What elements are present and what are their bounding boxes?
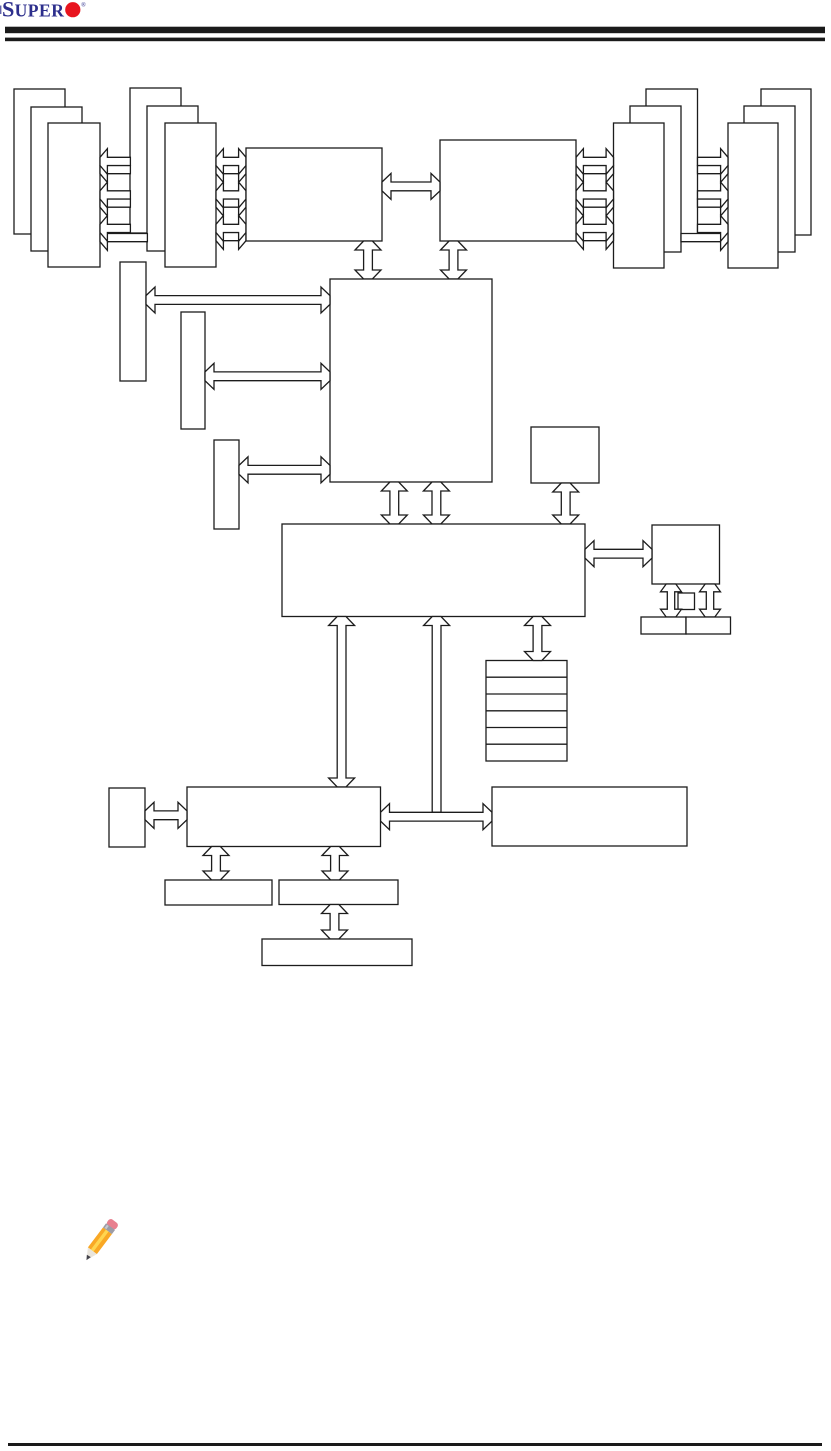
arrow small box to ICH [553, 483, 579, 524]
page edge letter sliver [0, 6, 1, 15]
arrow slot3 to IOH [239, 457, 330, 483]
header logo SUPER(R) [2, 0, 65, 22]
arrow F to G [322, 905, 348, 940]
line ICH down to IDE bus (head at top only) [424, 617, 450, 813]
arrows PCI bridge down [203, 847, 229, 881]
svg-text:®: ® [81, 2, 86, 9]
left DIMM stack group A (back to front) [14, 89, 65, 234]
arrow CPU2 to IOH [441, 241, 467, 279]
small box above ICH (media/VGA) [531, 427, 599, 483]
svg-text:UPER: UPER [15, 1, 65, 21]
arrow slot2 to IOH [205, 363, 330, 389]
memory bus arrows: CPU2 to stack E (double heads) [576, 157, 614, 183]
bottom box G [262, 939, 412, 966]
bottom box F [279, 880, 398, 905]
arrow super IO to PCI bridge [145, 802, 187, 828]
arrows BMC to LAN boxes [661, 584, 682, 617]
memory bus arrows: stack E to stack F (right heads only) [698, 157, 729, 183]
QPI arrow CPU1-CPU2 [382, 173, 440, 199]
pencil note icon [81, 1218, 119, 1263]
CPU1 box [246, 148, 382, 241]
header rule thick [5, 27, 825, 34]
memory bus arrows: stack B to CPU1 (double heads) [216, 157, 246, 183]
PCI-E slot box 3 [214, 440, 239, 529]
left DIMM stack group B (back to front) [130, 88, 181, 233]
arrow ICH to BMC [585, 541, 652, 567]
PCI-E slot box 1 [120, 262, 146, 381]
BMC box [652, 525, 720, 584]
arrow ICH to USB stack [525, 617, 551, 661]
ICH south bridge box [282, 524, 585, 617]
arrow CPU1 to IOH [355, 241, 381, 279]
right DIMM stack group F (back to front) [761, 89, 811, 235]
LAN box 2 [686, 617, 731, 634]
CPU2 box [440, 140, 576, 241]
footer rule [8, 1443, 822, 1446]
svg-text:S: S [2, 0, 14, 22]
USB port stack [486, 661, 567, 762]
horizontal arrow PCI bridge to right box [381, 804, 493, 830]
arrow slot1 to IOH [146, 287, 330, 313]
LAN box 1 [641, 617, 686, 634]
right DIMM stack group E (back to front) [646, 89, 698, 235]
header rule thin [5, 38, 825, 42]
memory bus arrows: stack A to stack B (left heads only) [100, 157, 130, 183]
tiny box below BMC [678, 593, 695, 610]
left small box (super IO) [109, 788, 145, 847]
long arrow ICH to PCI bridge box [329, 617, 355, 788]
logo red dot [65, 2, 80, 17]
right bottom box (IDE) [492, 787, 687, 846]
IOH box [330, 279, 492, 482]
arrows IOH to ICH [381, 482, 407, 524]
PCI-E slot box 2 [181, 312, 205, 429]
PCI bridge box [187, 787, 381, 847]
bottom box E [165, 880, 272, 905]
